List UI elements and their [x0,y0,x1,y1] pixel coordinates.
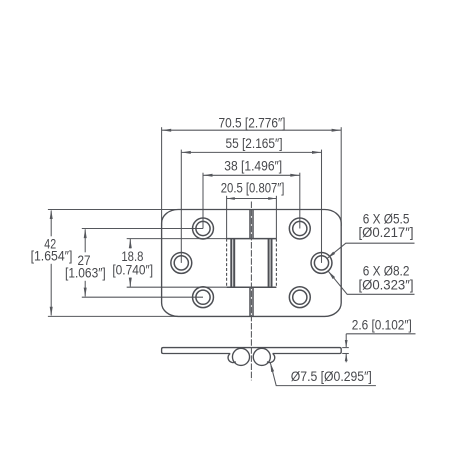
hole 5 outer O8.2 [311,252,332,273]
svg-text:[1.063″]: [1.063″] [65,266,106,281]
svg-text:[Ø0.323″]: [Ø0.323″] [358,278,413,293]
dimension 70.5 line [162,129,341,131]
svg-text:[0.740″]: [0.740″] [112,263,153,278]
centerline [250,202,252,381]
svg-text:55 [2.165″]: 55 [2.165″] [226,136,283,151]
dimension 27 extension lines [82,228,203,230]
hole 6 inner O5.5 [293,290,307,304]
knuckle curl edges [230,239,232,288]
dimension 18.8 line [129,239,131,248]
hole 3 outer O8.2 [193,287,214,308]
leader O7.5 [270,363,376,386]
arrowheads dimension 20.5 [227,197,235,200]
dimension 55 extension lines [180,150,182,263]
dimension 38 line [203,174,300,176]
hole 2 outer O8.2 [171,252,192,273]
arrowhead leader 6 X O8.2 [328,271,335,279]
hole 6 outer O8.2 [289,287,310,308]
arrowheads dimension 18.8 [129,239,132,248]
hole 4 inner O5.5 [293,221,307,235]
hole 1 inner O5.5 [196,221,210,235]
arrowhead leader O7.5 [270,363,274,372]
hole 3 inner O5.5 [196,290,210,304]
arrowheads dimension 2.6 [345,340,348,348]
side view right curl hook [267,354,275,363]
svg-text:70.5 [2.776″]: 70.5 [2.776″] [219,115,286,130]
dimension 2.6 extension stubs [342,347,349,349]
hole 2 inner O5.5 [174,256,188,270]
leader 6 X O5.5 [327,243,415,258]
dimension 18.8 extension lines (merge into barrel edges) [127,238,227,240]
leaf split lines bottom [249,287,251,316]
arrowheads dimension 42 [50,210,53,219]
side view leaves outline [162,348,342,354]
dimension 2.6 lines [345,334,347,347]
svg-text:38 [1.496″]: 38 [1.496″] [224,159,282,174]
arrowheads dimension 70.5 [162,129,171,132]
svg-text:20.5 [0.807″]: 20.5 [0.807″] [221,181,285,196]
dimension 42 extension lines [48,209,178,211]
hole 4 outer O8.2 [289,218,310,239]
arrowheads dimension 55 [182,151,191,154]
hole 1 outer O8.2 [193,218,214,239]
svg-text:6 X Ø8.2: 6 X Ø8.2 [363,264,410,279]
svg-text:[Ø0.217″]: [Ø0.217″] [358,225,413,240]
svg-text:[1.654″]: [1.654″] [31,249,73,264]
dimension 55 line [181,151,321,153]
side view left curl hook [228,354,236,363]
barrel hidden edges (dashed) [226,239,228,288]
dimension 70.5 extension lines [161,127,163,226]
dimension 38 extension lines [202,173,204,229]
arrowheads dimension 38 [203,174,212,177]
dimension 27 line [84,229,86,252]
svg-text:2.6 [0.102″]: 2.6 [0.102″] [352,317,412,332]
barrel horizontal edges [227,238,277,240]
dimension 20.5 line [227,198,277,200]
leaf split lines top [249,210,251,239]
arrowhead leader 6 X O5.5 [327,252,335,259]
leader 6 X O8.2 [328,271,415,294]
side view barrel circle right [253,348,270,365]
dimension 42 line [50,211,52,237]
svg-text:Ø7.5 [Ø0.295″]: Ø7.5 [Ø0.295″] [291,369,372,384]
hole 5 inner O5.5 [314,256,328,270]
arrowheads dimension 27 [84,229,87,238]
dimension 20.5 extension lines [226,196,228,239]
hinge outline front view [162,210,342,317]
side view barrel circle left [232,348,249,365]
svg-text:6 X Ø5.5: 6 X Ø5.5 [363,211,410,226]
